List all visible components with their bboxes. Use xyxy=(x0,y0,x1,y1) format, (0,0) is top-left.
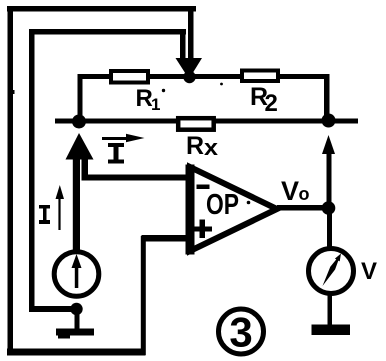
svg-text:OP: OP xyxy=(206,189,239,221)
svg-text:2: 2 xyxy=(265,90,278,117)
svg-text:o: o xyxy=(299,184,310,204)
svg-text:1: 1 xyxy=(151,95,160,114)
svg-text:V: V xyxy=(281,176,299,206)
svg-text:3: 3 xyxy=(229,309,252,356)
svg-text:x: x xyxy=(204,135,219,160)
svg-text:R: R xyxy=(186,132,204,160)
svg-text:V: V xyxy=(361,258,377,285)
